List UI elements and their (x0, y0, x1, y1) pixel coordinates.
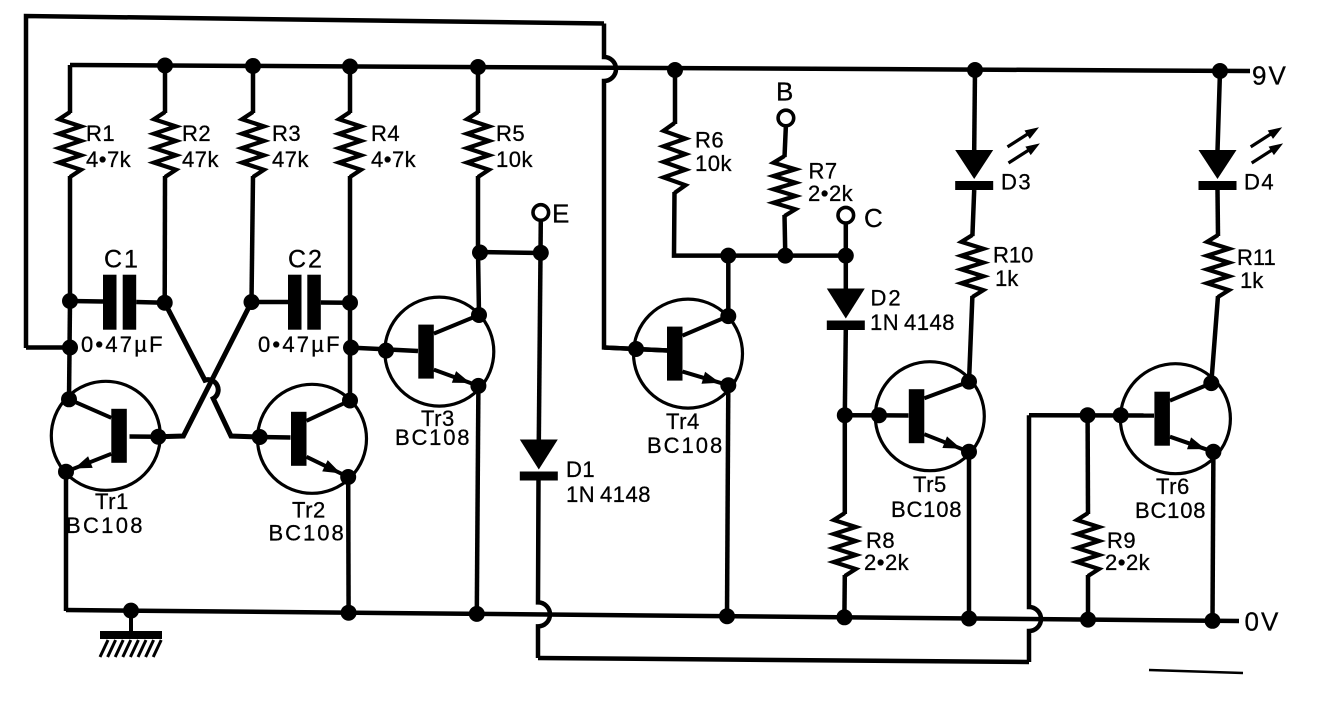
wire R5 bottom lead to E branch (476, 176, 481, 252)
diode D1 (1N4148) (520, 440, 558, 470)
node Tr6 collector (1203, 375, 1219, 391)
node 9V/D3 junction (967, 62, 983, 78)
resistor R10 (961, 235, 983, 297)
svg-text:0•47µF: 0•47µF (81, 332, 165, 357)
wire Tr4 emitter to 0V (727, 385, 728, 616)
wire R4 bottom lead to C2 right node (348, 176, 353, 303)
svg-text:Tr5: Tr5 (913, 472, 947, 497)
svg-text:R2: R2 (182, 121, 211, 146)
node Tr1 base junction (150, 429, 166, 445)
wire E column down to D1 (539, 253, 541, 441)
svg-text:BC108: BC108 (891, 497, 962, 522)
wire R11 bottom to Tr6 collector (1211, 296, 1218, 383)
wire Tr2 base lead (260, 435, 291, 440)
resistor R1 (59, 112, 81, 177)
wire R8 bottom lead (842, 575, 847, 618)
wire E terminal drop (538, 220, 543, 253)
node Tr2 base junction (252, 429, 268, 445)
svg-text:BC108: BC108 (269, 521, 346, 546)
wire R2 bottom lead to C1 right node (162, 176, 167, 303)
svg-text:1k: 1k (995, 266, 1019, 291)
ground symbol (129, 611, 133, 632)
node Tr4 emitter (720, 377, 736, 393)
node R9/0V junction (1080, 612, 1096, 628)
svg-text:47k: 47k (272, 147, 309, 172)
wire D4 cathode to R11 (1215, 190, 1220, 236)
wire Tr5 base lead (845, 413, 909, 418)
wire D2 anode lead (844, 256, 849, 290)
capacitor C1 plates (103, 275, 117, 330)
svg-text:C2: C2 (288, 246, 324, 274)
node Tr1 emitter (58, 464, 74, 480)
node Tr3 emitter (470, 378, 486, 394)
wire R3 top lead (251, 66, 256, 113)
LED D3 light arrows (1008, 133, 1031, 147)
node Tr1 collector (61, 391, 77, 407)
node Tr6 base circle-edge (1113, 407, 1129, 423)
svg-text:47k: 47k (182, 147, 219, 172)
node 9V/D4 junction (1212, 63, 1228, 79)
wire Tr6 base lead (1029, 413, 1154, 418)
resistor R11 (1207, 235, 1229, 297)
wire R8 top lead (843, 415, 848, 514)
wire Tr1 base lead (130, 434, 159, 439)
diode D3 (LED) (955, 150, 993, 179)
svg-text:BC108: BC108 (1135, 498, 1206, 523)
wire D3 cathode to R10 (972, 190, 974, 236)
node Tr5 emitter/0V junction (961, 611, 977, 627)
node ground junction (123, 603, 139, 619)
node Tr2 emitter (340, 469, 356, 485)
wire R7 bottom lead (782, 215, 787, 256)
node R7 bottom junction (777, 248, 793, 264)
terminal B (778, 110, 794, 126)
resistor R7 (774, 156, 796, 216)
svg-text:R11: R11 (1237, 245, 1276, 270)
wire D3 anode lead (972, 70, 977, 151)
node Tr6 emitter (1205, 444, 1221, 460)
transistor Tr1 (BC108) (51, 381, 160, 490)
svg-text:R7: R7 (809, 159, 838, 184)
wire 0V supply rail (66, 610, 1239, 621)
transistor Tr5 (BC108) (875, 362, 984, 471)
node C2-left/R3 junction (244, 294, 260, 310)
resistor R6 (664, 123, 686, 193)
node R8/0V junction (836, 609, 852, 625)
node Tr2 emitter/0V junction (341, 605, 357, 621)
terminal C (838, 207, 854, 223)
wire R3 bottom lead to C2 left node (252, 176, 254, 302)
svg-text:10k: 10k (695, 151, 732, 176)
wire R1 top lead (68, 65, 73, 113)
wire R5 node down to Tr3 collector (478, 251, 479, 315)
wire Tr4 collector riser (726, 256, 731, 317)
node 9V/R4 junction (342, 59, 358, 75)
stray printed line bottom right (1149, 670, 1243, 673)
transistor Tr4 (BC108) (634, 299, 743, 408)
svg-text:9V: 9V (1252, 61, 1288, 91)
capacitor C2 right lead (321, 300, 350, 305)
terminal E (533, 205, 549, 221)
node Tr3 collector (471, 307, 487, 323)
node Tr2 collector (342, 393, 358, 409)
svg-text:R6: R6 (695, 128, 724, 153)
svg-text:BC108: BC108 (66, 513, 145, 538)
svg-text:2•2k: 2•2k (808, 181, 854, 206)
node Tr5 base circle-edge (871, 407, 887, 423)
node Tr3 base circle-edge (378, 343, 394, 359)
svg-text:2•2k: 2•2k (864, 550, 910, 575)
svg-text:1N 4148: 1N 4148 (566, 482, 651, 507)
capacitor C2 left lead (252, 300, 289, 305)
wire Tr5 emitter to 0V (967, 452, 972, 619)
svg-text:R4: R4 (371, 121, 400, 146)
node D2/R8/Tr5-base junction (837, 407, 853, 423)
LED D4 light arrows (1251, 133, 1274, 147)
node 9V/R2 junction (157, 58, 173, 74)
svg-text:R10: R10 (993, 243, 1033, 268)
wire R5 top lead (476, 67, 481, 113)
svg-text:D3: D3 (1001, 170, 1032, 195)
wire R6 bottom to bias node (674, 192, 846, 256)
transistor Tr6 (BC108) (1120, 364, 1230, 474)
wire Tr6 emitter to 0V (1210, 452, 1215, 621)
svg-text:4•7k: 4•7k (371, 147, 417, 172)
wire Tr4 base lead (604, 348, 668, 351)
wire Tr2 emitter to 0V (346, 477, 351, 613)
node R5/E-wire junction (472, 245, 488, 261)
wire R2 top lead (163, 66, 168, 114)
wire R6 top lead (673, 70, 678, 124)
wire R1 bottom lead to C1 node (68, 176, 73, 302)
wire Tr1 emitter to 0V (64, 472, 69, 611)
svg-text:R5: R5 (496, 121, 525, 146)
resistor R3 (242, 112, 264, 177)
svg-text:10k: 10k (496, 147, 533, 172)
svg-text:Tr6: Tr6 (1156, 474, 1190, 499)
diode D2 (1N4148) (827, 289, 865, 319)
svg-text:Tr1: Tr1 (95, 489, 129, 514)
wire R9 top lead (1085, 415, 1090, 514)
node Tr4 collector branch (720, 248, 736, 264)
wire Tr3 emitter to 0V (477, 386, 479, 614)
node E-column junction (533, 245, 549, 261)
node R9 top junction (1080, 407, 1096, 423)
svg-text:1k: 1k (1240, 268, 1264, 293)
wire C2-left to Tr1 base (158, 302, 251, 437)
node Tr4 emitter/0V junction (719, 608, 735, 624)
wire Tr1 collector riser (69, 301, 70, 400)
wire R9 bottom lead (1086, 575, 1091, 620)
wire C2-right node down to Tr2 collector (348, 303, 353, 401)
wire C1-right to Tr2 base (with hop) (165, 303, 260, 437)
svg-text:D1: D1 (566, 457, 595, 482)
svg-text:0•47µF: 0•47µF (258, 332, 342, 357)
node Tr4 base circle-edge (628, 341, 644, 357)
node C1-right/R2 junction (157, 295, 173, 311)
capacitor C2 plates (288, 275, 302, 330)
transistor Tr3 (BC108) (385, 297, 494, 406)
node Tr5 emitter (961, 444, 977, 460)
svg-text:B: B (776, 77, 794, 107)
svg-text:BC108: BC108 (395, 425, 471, 450)
svg-text:R1: R1 (86, 121, 115, 146)
wire R4 top lead (348, 67, 353, 114)
svg-text:0V: 0V (1245, 607, 1281, 637)
wire feedback into Tr1 collector node (26, 345, 70, 350)
node Tr3 emitter/0V junction (469, 606, 485, 622)
node Tr3 base branch junction (343, 340, 359, 356)
resistor R9 (1077, 513, 1099, 576)
wire feedback drop to Tr4 base with hop over 9V rail (604, 24, 668, 351)
svg-text:E: E (552, 199, 570, 229)
capacitor C1 right lead (136, 300, 165, 305)
resistor R4 (339, 112, 361, 177)
svg-text:BC108: BC108 (647, 433, 724, 458)
node 9V/R6 junction (667, 62, 683, 78)
svg-text:D4: D4 (1244, 170, 1275, 195)
wire top feedback rail (Tr1 collector to Tr4 base) (26, 16, 604, 348)
svg-text:Tr4: Tr4 (666, 409, 700, 434)
resistor R8 (834, 513, 856, 576)
node 9V/R3 junction (245, 58, 261, 74)
wire bottom link D1 to Tr6 base node (538, 658, 1029, 662)
node 9V/R5 junction (470, 59, 486, 75)
node Tr5 collector (961, 374, 977, 390)
svg-text:1N 4148: 1N 4148 (870, 310, 955, 335)
resistor R2 (154, 112, 176, 177)
svg-text:Tr2: Tr2 (292, 498, 326, 523)
node feedback/R1 junction (62, 340, 78, 356)
svg-text:2•2k: 2•2k (1105, 550, 1151, 575)
wire R10 bottom to Tr5 collector (969, 296, 972, 382)
wire C terminal drop (844, 222, 849, 256)
wire D4 anode lead (1218, 71, 1221, 151)
wire Tr3 base branch (351, 348, 418, 351)
svg-text:C: C (864, 203, 884, 233)
wire R5-node to E column (478, 252, 541, 253)
node Tr4 collector (720, 308, 736, 324)
svg-text:C1: C1 (104, 246, 140, 274)
node R1/C1 junction (62, 293, 78, 309)
resistor R5 (467, 112, 489, 177)
capacitor C1 left lead (70, 299, 103, 304)
wire B terminal drop (785, 126, 786, 158)
wire bottom link riser with hop over 0V rail (1029, 415, 1041, 662)
diode D4 (LED) (1199, 150, 1237, 179)
node D2 top junction (838, 248, 854, 264)
node Tr6 emitter/0V junction (1205, 613, 1221, 629)
wire D2 cathode to Tr5 base node (845, 329, 846, 415)
node C2-right/R4 junction (342, 295, 358, 311)
svg-text:D2: D2 (871, 286, 903, 311)
wire 9V supply rail (70, 65, 1250, 71)
svg-text:4•7k: 4•7k (86, 147, 132, 172)
svg-text:R3: R3 (272, 121, 301, 146)
transistor Tr2 (BC108) (258, 384, 367, 493)
wire D1 cathode down with hop over 0V rail (538, 480, 550, 658)
